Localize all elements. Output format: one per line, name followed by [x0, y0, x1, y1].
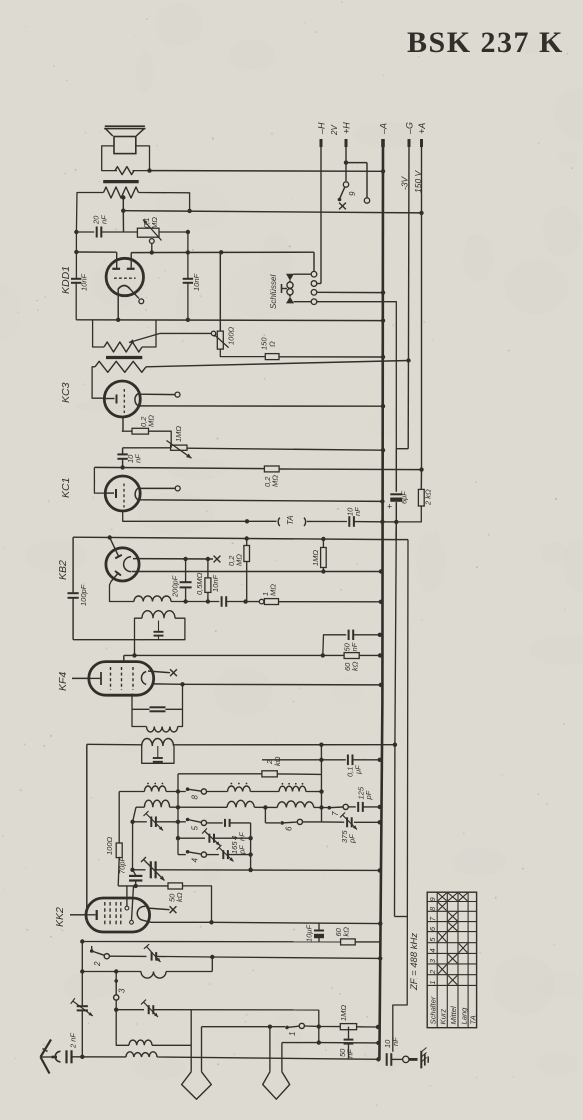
bias jog to -G lower line	[396, 539, 408, 541]
tube KF4 envelope	[89, 662, 154, 696]
tube KK2 pin circles	[125, 906, 129, 910]
IF transformer 1 capacitor	[150, 706, 166, 708]
svg-text:70pF: 70pF	[118, 856, 127, 874]
potentiometer 0,1M	[137, 228, 159, 237]
IF transformer 2 coil	[142, 739, 174, 747]
wire KF4 anode to -A	[183, 683, 381, 686]
wire	[170, 806, 227, 808]
resistor 50k	[168, 883, 183, 889]
wire KC1 grid row	[94, 467, 264, 468]
wire 60k to -A	[359, 654, 380, 656]
svg-text:100pF: 100pF	[79, 584, 88, 606]
wire	[207, 791, 228, 793]
resistor speaker hum-bucking	[115, 167, 134, 175]
trimmer capacitor padder	[148, 1005, 150, 1014]
switch 9 branch wire	[346, 162, 367, 164]
trimmer capacitor	[150, 817, 152, 828]
wire 20nF row	[76, 231, 94, 233]
tube KC3 envelope	[104, 381, 140, 417]
wire 1M to -A	[357, 1026, 378, 1028]
wire KC1 grid left	[94, 467, 105, 493]
wire to 375pF	[322, 821, 345, 823]
svg-text:2: 2	[93, 961, 102, 967]
switch 7	[322, 807, 328, 809]
coil row2 A	[144, 800, 169, 807]
tube KC3 anode	[135, 393, 139, 406]
tube KF4 top grid lead	[123, 655, 125, 661]
wire to -A	[156, 869, 380, 872]
svg-text:nF: nF	[353, 507, 362, 516]
switch 3	[115, 972, 117, 981]
wire 0,1uF row	[262, 759, 346, 761]
plug stem	[269, 1027, 271, 1072]
tube KF4 lead left	[72, 677, 89, 679]
wire antenna row to -A	[157, 1057, 378, 1059]
tube KC1 envelope	[105, 476, 140, 511]
ground symbol	[420, 1051, 422, 1069]
tube KB2 anode	[124, 557, 131, 572]
rail +H wire	[345, 147, 347, 181]
wire antenna row	[72, 1056, 127, 1058]
svg-text:μF: μF	[354, 765, 363, 775]
capacitor 10nF ground	[386, 1053, 388, 1066]
switch 9 x terminal	[339, 203, 346, 210]
tube KB2 grids	[110, 538, 119, 557]
transformer secondary winding	[95, 361, 146, 372]
svg-text:2 nF: 2 nF	[69, 1033, 78, 1049]
line -G lower run	[393, 540, 408, 1052]
wire to -A and bias line	[354, 521, 396, 523]
svg-text:1: 1	[428, 980, 437, 984]
wire antenna	[41, 1056, 52, 1058]
tube KDD1 bottom lead	[117, 289, 119, 320]
wire anode to -A	[212, 922, 381, 923]
svg-text:10nF: 10nF	[192, 273, 201, 291]
bias line	[395, 449, 397, 492]
wire 20nF row to left anode	[76, 251, 116, 253]
resistor 1M	[264, 599, 278, 605]
wire to -A	[355, 941, 380, 943]
resistor 2k	[420, 470, 422, 490]
wire to -A	[353, 759, 380, 761]
tube KK2 top pin wire	[126, 886, 128, 906]
wire plug row right	[282, 1042, 319, 1044]
wire KC3 cathode down	[122, 417, 124, 431]
wire	[226, 601, 259, 603]
tube KF4 anode lead	[154, 683, 183, 685]
svg-text:pF: pF	[348, 834, 357, 844]
svg-text:7: 7	[331, 811, 340, 816]
wire key c4 to bias line	[317, 302, 397, 449]
tube KK2 anode	[137, 906, 145, 920]
potentiometer 100 ohm	[219, 252, 221, 331]
wire padder to column	[153, 1009, 318, 1011]
wire 150 ohm to -A	[279, 356, 383, 358]
wire coil row	[211, 957, 213, 972]
wire	[303, 821, 322, 823]
tube KB2 screen wire	[133, 558, 213, 560]
switch 4	[186, 850, 190, 854]
resistor 0,2M column	[246, 539, 248, 546]
wire wiper to pot 100	[160, 332, 211, 334]
tube KF4 anode	[141, 672, 146, 685]
wire padder row	[116, 1009, 144, 1011]
plug stem	[281, 1043, 283, 1072]
wire loop to 60k row	[134, 640, 136, 656]
svg-text:KK2: KK2	[54, 907, 66, 927]
capacitor 10nF TA	[348, 516, 350, 527]
svg-text:10nF: 10nF	[211, 574, 220, 592]
wire	[101, 231, 137, 233]
wire switch3 down	[115, 1000, 117, 1040]
svg-text:nF: nF	[238, 832, 247, 841]
tube KK2 grids	[104, 902, 106, 925]
tube KC3 grid	[123, 389, 125, 413]
wire	[306, 791, 322, 793]
tube KK2 envelope	[86, 898, 150, 932]
wire winding left down	[76, 193, 103, 233]
wire tap stub	[122, 198, 124, 211]
wire secondary right to -G rail	[146, 361, 409, 367]
wire KC1 bottom to TA row	[123, 511, 247, 522]
svg-text:2V: 2V	[330, 125, 339, 136]
resistor 0,2M	[122, 430, 132, 432]
tube KC3 cathode	[116, 395, 118, 404]
resistor 1M column	[321, 548, 327, 568]
tube KDD1 envelope	[106, 258, 143, 295]
wire 2k to column	[277, 773, 321, 776]
wire trimmer row y822	[133, 821, 147, 823]
coil row2 C	[277, 801, 314, 808]
capacitor 10nF right	[187, 232, 189, 278]
key symbol	[286, 274, 294, 281]
paper noise	[189, 169, 191, 171]
wire right anode to key	[131, 251, 314, 253]
svg-text:4: 4	[191, 858, 200, 863]
svg-text:10μF: 10μF	[305, 925, 314, 942]
svg-text:kΩ: kΩ	[351, 661, 360, 671]
tube KF4 top lead with x	[148, 671, 170, 673]
capacitor 0,1uF	[347, 755, 349, 766]
switch 6	[280, 821, 284, 825]
svg-text:Lang: Lang	[460, 1007, 469, 1025]
svg-text:Kurz: Kurz	[439, 1009, 448, 1025]
output transformer core bar	[103, 180, 139, 183]
plug connector right	[263, 1072, 290, 1099]
tube KB2 cathode lead	[110, 582, 135, 602]
trimmer capacitor 375pF	[346, 817, 348, 827]
svg-text:6μF: 6μF	[400, 491, 409, 504]
tube KF4 cathode	[100, 672, 102, 685]
wire	[118, 858, 119, 886]
tube KC3 anode wire to -A	[139, 405, 383, 407]
rail +A wire	[421, 147, 423, 470]
tube KC1 anode lead with circle	[139, 487, 175, 489]
output transformer winding	[104, 187, 139, 198]
wire osc row2	[136, 806, 144, 808]
capacitor 10nF	[221, 596, 223, 607]
column antenna left	[81, 942, 83, 1006]
svg-text:ZF = 488 kHz: ZF = 488 kHz	[409, 933, 420, 991]
capacitor 6uF electrolytic	[390, 493, 402, 495]
wire to +A rail	[279, 468, 421, 471]
capacitor 10nF coupling	[122, 448, 124, 454]
switch 8	[186, 787, 190, 791]
svg-text:KDD1: KDD1	[60, 266, 72, 294]
capacitor 200pF	[185, 559, 187, 582]
svg-text:10nF: 10nF	[80, 273, 89, 291]
transformer core bar	[106, 356, 142, 359]
wire	[314, 806, 322, 808]
plug stem	[190, 1010, 192, 1072]
svg-text:1MΩ: 1MΩ	[311, 550, 320, 566]
transformer primary loop	[93, 320, 104, 347]
svg-text:100Ω: 100Ω	[227, 326, 236, 345]
coil	[129, 1040, 152, 1045]
rail -G tick	[408, 139, 411, 147]
wire cathode row	[171, 601, 219, 603]
svg-text:3: 3	[118, 988, 127, 993]
tube KB2 envelope	[106, 548, 139, 581]
resistor 2k	[262, 771, 277, 777]
capacitor 50nF	[323, 635, 346, 656]
tube KK2 cathode	[96, 910, 98, 920]
column x250	[250, 823, 252, 870]
wire	[156, 821, 186, 823]
tube KC1 grid	[123, 484, 125, 508]
switch 5	[186, 818, 190, 822]
wire KDD1 bottom row to -A	[76, 319, 383, 322]
rail -A tick	[381, 139, 385, 147]
rail -A bus (thick)	[381, 147, 384, 700]
svg-text:TA: TA	[286, 515, 295, 525]
wire	[214, 837, 251, 839]
svg-text:pF: pF	[364, 790, 373, 800]
IF transformer 2 loop	[142, 746, 174, 763]
svg-text:1MΩ: 1MΩ	[174, 426, 183, 442]
IF transformer 2 capacitor	[157, 746, 159, 757]
wire TA row	[247, 520, 277, 522]
wire 50k right	[183, 886, 212, 922]
wire	[304, 1025, 318, 1027]
svg-text:pF: pF	[238, 845, 247, 855]
trimmer capacitor	[151, 952, 153, 961]
wire	[254, 806, 277, 808]
coil under KB2	[134, 596, 171, 602]
line key c4 lower	[395, 522, 396, 745]
wire 100pF column to loop	[73, 639, 134, 641]
svg-text:nF: nF	[134, 454, 143, 463]
svg-text:2: 2	[428, 969, 437, 975]
resistor 0,5M	[207, 559, 209, 578]
wire 1M to -A	[279, 601, 381, 603]
tap arrow on winding	[129, 333, 160, 342]
antenna arc	[55, 1051, 60, 1062]
wire KF4 grid column to KK2	[86, 744, 88, 911]
svg-text:MΩ: MΩ	[235, 554, 244, 566]
wire	[391, 1058, 402, 1060]
svg-text:TA: TA	[468, 1015, 477, 1024]
tuned circuit coil KB2	[142, 611, 175, 618]
plug stem	[201, 1027, 203, 1072]
svg-text:5: 5	[191, 826, 200, 831]
band table frame	[427, 892, 476, 1027]
plug connector left	[182, 1072, 212, 1099]
wire tap row to +A rail	[123, 211, 421, 213]
wire osc row1	[119, 791, 144, 793]
tube KK2 anode lead	[143, 920, 151, 922]
pot wiper circle	[149, 239, 154, 244]
svg-text:6: 6	[285, 826, 294, 831]
pot 100 wiper circle	[211, 331, 215, 335]
wire 50k row	[118, 885, 168, 887]
switch 1	[285, 1026, 289, 1030]
rail -H wire	[320, 147, 322, 284]
trimmer capacitor 165pF	[208, 834, 210, 843]
wire 60k row	[124, 654, 344, 656]
coil row1 A	[144, 786, 166, 792]
wire	[159, 231, 188, 233]
coil row1 B	[228, 786, 251, 792]
svg-text:150 V: 150 V	[413, 169, 423, 193]
capacitor 4nF	[207, 822, 223, 824]
tube KDD1 diode anodes	[112, 268, 120, 270]
svg-text:–H: –H	[317, 122, 327, 135]
svg-text:kΩ: kΩ	[342, 927, 351, 937]
coil antenna coupling	[126, 1052, 157, 1057]
coil TA right half	[304, 518, 306, 526]
wire to -A	[156, 955, 212, 958]
svg-text:0,5MΩ: 0,5MΩ	[195, 572, 204, 595]
svg-text:200pF: 200pF	[171, 575, 180, 598]
band table rows	[427, 901, 476, 903]
tube KK2 lead left	[70, 914, 86, 916]
wire 165pF row	[178, 837, 205, 839]
wire secondary left to KC3	[92, 367, 104, 398]
tube KC1 screen wire to -A	[139, 500, 382, 502]
tube KK2 grid pin wire	[132, 886, 134, 921]
wire KF4 grid row	[87, 743, 142, 746]
rail -G wire	[407, 147, 410, 449]
wire 60k row2	[82, 941, 340, 943]
capacitor 70pF	[133, 807, 136, 822]
wire 2k row	[178, 773, 262, 775]
wire 1M pot to -A	[187, 448, 383, 450]
tube KF4 grids	[110, 667, 112, 690]
svg-text:kΩ: kΩ	[175, 892, 184, 902]
wire	[166, 791, 186, 793]
column x178	[177, 774, 179, 855]
loudspeaker	[105, 125, 145, 127]
wire switch1 row	[202, 1026, 286, 1028]
capacitor 20nF	[96, 227, 98, 238]
potentiometer 1M	[171, 445, 187, 450]
tube KC1 cathode	[115, 489, 117, 498]
wire KB2 top row	[73, 537, 396, 539]
wire switch4 row	[178, 854, 186, 856]
switch 9 contact circle	[364, 198, 369, 203]
coil row2 B	[227, 800, 254, 807]
column 100 ohm	[118, 792, 120, 844]
wire pot bottom to 150 ohm	[220, 349, 265, 357]
svg-text:kΩ: kΩ	[273, 756, 282, 766]
wire switch6 row	[264, 807, 266, 823]
band table X marks	[438, 893, 447, 901]
switch 9	[343, 182, 348, 187]
svg-text:100Ω: 100Ω	[105, 836, 114, 855]
svg-text:MΩ: MΩ	[271, 475, 280, 487]
chassis connector circle	[403, 1056, 409, 1062]
column x321	[320, 745, 322, 808]
capacitor 125pF	[348, 806, 356, 808]
band table columns	[436, 892, 438, 1027]
trimmer capacitor	[207, 854, 219, 856]
coil row1 C	[279, 786, 306, 791]
coil oscillator lower	[116, 1040, 129, 1045]
bias line lower	[395, 502, 397, 522]
tube KDD1 cathode lead circle	[130, 289, 139, 299]
svg-text:4: 4	[428, 948, 437, 952]
key wires to contacts	[294, 273, 312, 275]
wire coil to plug stem	[152, 1044, 191, 1046]
svg-text:nF: nF	[346, 1049, 355, 1058]
tuned circuit capacitor	[158, 621, 160, 632]
svg-text:nF: nF	[350, 642, 359, 651]
svg-text:MΩ: MΩ	[269, 584, 278, 596]
resistor 1M AVC	[340, 1024, 356, 1030]
capacitor 10nF left	[75, 232, 77, 278]
svg-text:Schalter: Schalter	[429, 996, 438, 1024]
resistor 60k	[341, 939, 356, 945]
svg-text:9: 9	[348, 191, 357, 196]
capacitor 100pF	[72, 537, 74, 592]
wire	[82, 971, 141, 973]
resistor 0,2M grid leak	[264, 466, 279, 472]
IF transformer 1 coil	[147, 727, 178, 733]
svg-text:Mittel: Mittel	[449, 1006, 458, 1024]
wire winding right to +A row	[139, 193, 190, 211]
wire key c3 to -A	[317, 291, 383, 293]
svg-text:1MΩ: 1MΩ	[339, 1005, 348, 1021]
wire switch2 row	[109, 955, 146, 957]
trimmer capacitor antenna	[77, 1005, 88, 1007]
rail +A tick	[420, 139, 423, 147]
speaker loop wire	[102, 146, 117, 171]
capacitor 50nF	[348, 1027, 350, 1039]
tuned circuit loop	[135, 618, 185, 640]
transformer primary winding	[104, 342, 142, 352]
antenna symbol	[41, 1040, 52, 1058]
wire 375pF to -A	[354, 821, 380, 823]
svg-text:8: 8	[191, 795, 200, 800]
svg-text:MΩ: MΩ	[150, 217, 159, 229]
svg-text:KC3: KC3	[60, 382, 72, 403]
tube KC3 anode lead with circle	[139, 393, 175, 395]
variable capacitor main tuning	[150, 861, 152, 878]
wire grid coupling row	[123, 447, 171, 449]
svg-text:MΩ: MΩ	[147, 415, 156, 427]
svg-text:nF: nF	[100, 215, 109, 224]
tube KK2 lead x	[147, 908, 170, 910]
tube KDD1 cathode	[114, 277, 136, 279]
key contact circles	[311, 271, 317, 277]
rail -H tick	[320, 139, 323, 147]
svg-text:-3V: -3V	[400, 175, 410, 190]
coil antenna input	[141, 972, 166, 979]
capacitor 10uF electrolytic	[318, 924, 320, 930]
coil TA left half	[278, 518, 280, 526]
svg-text:+: +	[387, 502, 392, 512]
